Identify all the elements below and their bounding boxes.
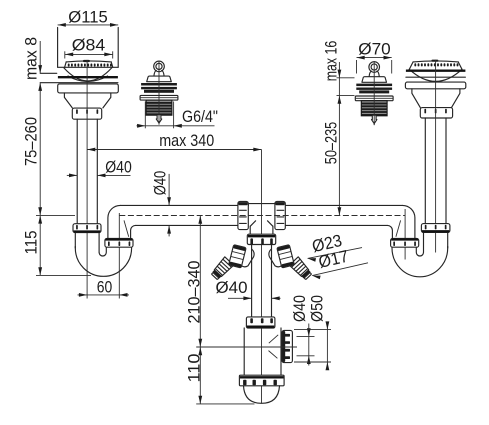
- trap dome: [244, 386, 280, 404]
- right U-bend outer arc: [392, 247, 448, 277]
- left elbow inner: [131, 225, 136, 238]
- left elbow seam: [124, 220, 129, 236]
- trap outlet coupling: [282, 330, 292, 362]
- left elbow swivel nut: [105, 238, 133, 247]
- tee side nut right: [275, 202, 285, 230]
- horizontal pipe top edge: [121, 204, 249, 206]
- right elbow swivel nut: [391, 238, 419, 247]
- right strainer body: [412, 89, 460, 108]
- left elbow outer: [108, 205, 121, 238]
- sink deck lines (right): [406, 70, 466, 72]
- right elbow seam: [396, 220, 401, 236]
- dim Ø115 extension / rim sides: [57, 28, 59, 68]
- svg-text:max 8: max 8: [21, 37, 40, 80]
- svg-text:G6/4": G6/4": [182, 108, 218, 126]
- svg-text:Ø40: Ø40: [290, 295, 309, 322]
- left strainer bowl: [64, 68, 112, 81]
- trap bottom ext line: [196, 403, 254, 405]
- sink deck lines (left): [40, 72, 57, 74]
- vertical pipe (tee to trap): [251, 245, 253, 320]
- right strainer grate teeth: [414, 63, 416, 66]
- right tailpipe swivel nut: [421, 224, 450, 233]
- plug stem: [156, 115, 161, 123]
- plug flange: [355, 96, 393, 101]
- right hose connector: [289, 257, 313, 281]
- left hose connector neck: [241, 249, 254, 267]
- right elbow centerline: [404, 209, 406, 260]
- plug threaded barrel: [146, 100, 172, 115]
- plug ring holder: [154, 71, 164, 77]
- left U-bend outer arc: [75, 247, 131, 277]
- svg-text:Ø84: Ø84: [72, 35, 106, 54]
- left strainer grate teeth: [68, 64, 70, 67]
- plug ring: [154, 61, 165, 72]
- trap bottom flange: [239, 375, 284, 386]
- plug ring holder: [369, 71, 379, 77]
- left U-bend inner arc: [99, 247, 106, 256]
- plug ring: [369, 62, 380, 73]
- plug flange: [140, 95, 178, 100]
- plug cap: [362, 77, 387, 83]
- plug threaded barrel: [361, 101, 387, 116]
- left P-bend pipe below tail nut: [74, 233, 76, 248]
- trap top nut: [246, 317, 275, 328]
- svg-text:60: 60: [97, 277, 113, 296]
- svg-text:max 340: max 340: [159, 131, 214, 150]
- plug washers: [141, 83, 177, 86]
- tee lower nut: [247, 234, 275, 244]
- svg-text:115: 115: [22, 231, 41, 255]
- plug centerline: [158, 61, 160, 125]
- right elbow outer: [403, 205, 415, 238]
- svg-text:Ø50: Ø50: [307, 295, 326, 322]
- plug centerline: [373, 61, 375, 125]
- svg-text:Ø40: Ø40: [151, 171, 170, 196]
- vertical centerline: [261, 150, 263, 404]
- left tailpipe swivel nut: [73, 224, 101, 233]
- right centerline: [435, 60, 437, 253]
- right strainer bowl: [409, 69, 462, 81]
- right hose connector neck: [269, 249, 282, 267]
- svg-text:Ø115: Ø115: [68, 7, 108, 26]
- horizontal pipe bottom edge: [136, 224, 239, 226]
- pipe centerline dash-dot: [119, 215, 405, 217]
- svg-text:Ø40: Ø40: [216, 278, 248, 297]
- left elbow centerline: [118, 213, 120, 299]
- right strainer flange ring: [405, 82, 465, 89]
- tee side nut left: [238, 202, 248, 230]
- svg-text:50–235: 50–235: [321, 122, 340, 165]
- right P-bend pipe below tail nut: [447, 232, 449, 248]
- right U-bend inner arc: [416, 247, 423, 256]
- outlet ext lines: [294, 329, 331, 331]
- svg-text:Ø70: Ø70: [358, 40, 391, 59]
- right tailpipe: [424, 118, 426, 224]
- trap outlet internals: [269, 335, 279, 359]
- left strainer dish: [66, 61, 111, 62]
- right strainer lock nut: [420, 108, 452, 118]
- right elbow inner: [387, 225, 392, 238]
- plug washers: [356, 84, 392, 87]
- plug stem: [372, 116, 377, 124]
- svg-text:Ø40: Ø40: [105, 157, 132, 176]
- svg-text:75–260: 75–260: [22, 117, 41, 166]
- left strainer rim plate: [58, 66, 119, 68]
- trap body: [243, 328, 245, 375]
- plug cap: [147, 76, 172, 82]
- left strainer lock nut: [72, 108, 101, 119]
- dim G6/4: [144, 102, 146, 129]
- left tailpipe: [76, 119, 78, 224]
- tee shoulders: [250, 221, 272, 226]
- left hose connector: [210, 257, 234, 281]
- left strainer body: [64, 93, 110, 108]
- outlet centerline: [196, 346, 297, 348]
- left centerline: [86, 60, 88, 299]
- right strainer dish: [413, 61, 458, 62]
- left strainer flange ring: [58, 84, 119, 93]
- svg-text:max 16: max 16: [321, 41, 340, 82]
